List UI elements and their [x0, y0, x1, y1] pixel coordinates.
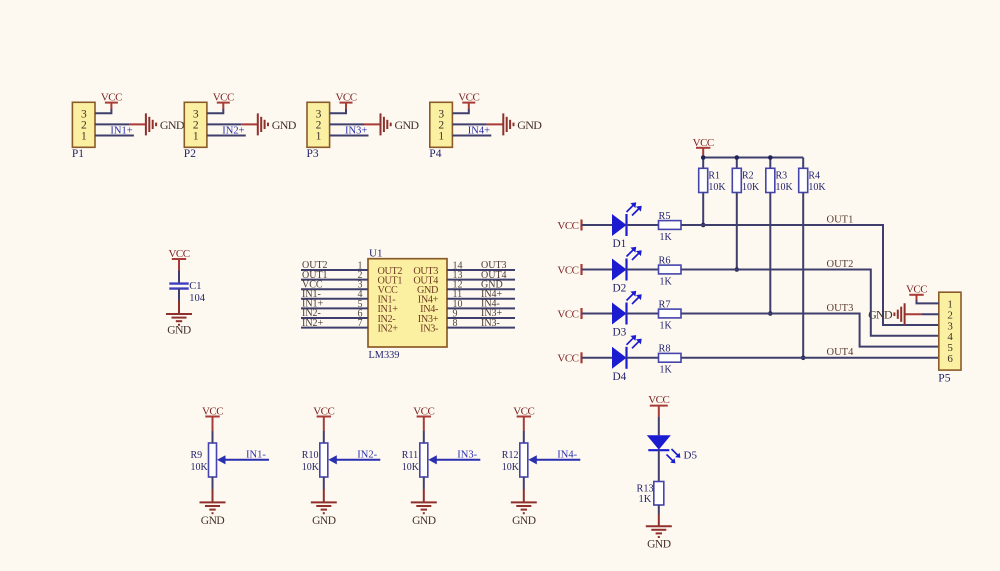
svg-text:R1: R1 [708, 170, 720, 181]
ground GND (P4 pin 2) [487, 123, 504, 125]
ground GND (R12) [523, 489, 525, 502]
resistor R8 [659, 353, 682, 362]
wire U1 pin 7 [301, 327, 368, 329]
svg-text:GND: GND [160, 118, 185, 132]
ground GND (P5 pin 2) [905, 313, 922, 315]
ground GND (P1 pin 2) [129, 123, 146, 125]
svg-text:VCC: VCC [557, 264, 578, 276]
potentiometer R9 [209, 443, 217, 477]
svg-text:1K: 1K [660, 276, 673, 287]
ground GND (C1) [178, 301, 180, 314]
wire U1 pin 6 [301, 317, 368, 319]
svg-text:10K: 10K [776, 182, 794, 193]
svg-text:GND: GND [272, 118, 297, 132]
wire OUT1 to P5 pin 3 [681, 225, 939, 325]
svg-text:LM339: LM339 [369, 350, 400, 361]
svg-text:GND: GND [647, 539, 671, 551]
svg-text:IN3-: IN3- [481, 318, 500, 329]
svg-text:C1: C1 [189, 281, 201, 292]
svg-text:104: 104 [189, 293, 206, 304]
wire D3 to R7 [627, 313, 659, 315]
wire R11 to GND [423, 477, 425, 489]
svg-text:IN2+: IN2+ [302, 318, 324, 329]
wire P1 pin 2 to ground [95, 123, 129, 125]
connector P3 [307, 102, 330, 147]
svg-text:GND: GND [167, 325, 191, 337]
svg-text:OUT3: OUT3 [827, 303, 854, 314]
resistor R13 [654, 482, 664, 506]
svg-text:GND: GND [201, 515, 225, 527]
svg-text:D2: D2 [613, 283, 627, 295]
wire U1 pin 13 [447, 279, 515, 281]
ground GND (R10) [323, 489, 325, 502]
svg-text:D1: D1 [613, 238, 627, 250]
svg-text:10K: 10K [808, 182, 826, 193]
svg-text:10K: 10K [402, 462, 420, 473]
svg-text:1K: 1K [660, 320, 673, 331]
svg-text:VCC: VCC [557, 308, 578, 320]
LED D2 [612, 259, 627, 281]
svg-text:R13: R13 [637, 483, 654, 494]
svg-text:P1: P1 [72, 148, 84, 160]
wire U1 pin 11 [447, 298, 515, 300]
potentiometer R12 [520, 443, 528, 477]
svg-text:R11: R11 [402, 450, 418, 461]
LED arrows D1 [627, 204, 636, 213]
svg-text:IN2+: IN2+ [222, 125, 244, 136]
capacitor C1 [169, 282, 188, 284]
wire U1 pin 9 [447, 317, 515, 319]
svg-text:IN1+: IN1+ [110, 125, 132, 136]
connector P4 [430, 102, 453, 147]
potentiometer R10 [320, 443, 328, 477]
wire P2 pin 3 to VCC [207, 109, 223, 113]
svg-text:1: 1 [193, 131, 199, 143]
wire VCC to R9 [212, 431, 214, 443]
connector P1 [72, 102, 95, 147]
resistor R1 [702, 158, 704, 169]
wire U1 pin 12 [447, 288, 515, 290]
wire P3 pin 3 to VCC [330, 109, 346, 113]
wire U1 pin 4 [301, 298, 368, 300]
svg-text:U1: U1 [369, 247, 382, 259]
wire U1 pin 2 [301, 279, 368, 281]
wire R10 to GND [323, 477, 325, 489]
wire R9 to GND [212, 477, 214, 489]
svg-text:R9: R9 [191, 450, 203, 461]
wire VCC to R12 [523, 431, 525, 443]
wire D2 to R6 [627, 269, 659, 271]
svg-text:GND: GND [395, 118, 420, 132]
junction [735, 267, 740, 272]
LED arrows D4 [627, 336, 636, 345]
resistor R7 [659, 309, 682, 318]
connector P2 [184, 102, 207, 147]
wire D5 to R13 [658, 450, 660, 481]
svg-text:1: 1 [316, 131, 322, 143]
resistor R5 [659, 221, 682, 230]
wire VCC to R11 [423, 431, 425, 443]
svg-text:1K: 1K [639, 494, 652, 505]
wire VCC rail [703, 157, 803, 159]
wire OUT2 to P5 pin 4 [681, 270, 939, 336]
junction [701, 223, 706, 228]
LED D4 [612, 347, 627, 369]
svg-text:R6: R6 [659, 255, 671, 266]
LED arrows D5 [672, 449, 680, 457]
wire D1 to R5 [627, 224, 659, 226]
svg-text:GND: GND [312, 515, 336, 527]
wire VCC to D3 [582, 313, 613, 315]
junction [768, 311, 773, 316]
resistor R6 [659, 265, 682, 274]
svg-text:OUT1: OUT1 [827, 214, 854, 225]
svg-text:10K: 10K [708, 182, 726, 193]
svg-text:VCC: VCC [557, 353, 578, 365]
svg-text:IN3-: IN3- [420, 323, 439, 334]
wire U1 pin 1 [301, 269, 368, 271]
svg-text:IN2+: IN2+ [378, 323, 399, 334]
resistor R3 [769, 158, 771, 169]
svg-text:IN4+: IN4+ [468, 125, 490, 136]
LED arrows D3 [627, 292, 636, 301]
junction [801, 356, 806, 361]
ground GND (R9) [212, 489, 214, 502]
svg-text:P4: P4 [429, 148, 441, 160]
svg-text:7: 7 [358, 318, 363, 329]
wire P2 pin 2 to ground [207, 123, 241, 125]
svg-text:GND: GND [512, 515, 536, 527]
svg-text:D3: D3 [613, 327, 627, 339]
svg-text:10K: 10K [502, 462, 520, 473]
svg-text:10K: 10K [742, 182, 760, 193]
wire C1 to GND [178, 289, 180, 301]
wire P4 pin 3 to VCC [452, 109, 468, 113]
svg-text:10K: 10K [302, 462, 320, 473]
wire R12 to GND [523, 477, 525, 489]
svg-text:1: 1 [81, 131, 87, 143]
svg-text:IN4-: IN4- [557, 449, 577, 460]
svg-text:R5: R5 [659, 211, 671, 222]
svg-text:1K: 1K [660, 365, 673, 376]
svg-text:GND: GND [868, 308, 893, 322]
svg-text:P3: P3 [307, 148, 319, 160]
ground GND (P3 pin 2) [364, 123, 381, 125]
wire P2 pin 1 (IN2+) [207, 135, 246, 137]
svg-text:R3: R3 [776, 170, 788, 181]
wire U1 pin 3 [301, 288, 368, 290]
svg-text:D5: D5 [684, 449, 698, 461]
svg-text:VCC: VCC [648, 394, 669, 406]
svg-text:R10: R10 [302, 450, 319, 461]
svg-text:R7: R7 [659, 299, 671, 310]
svg-text:R4: R4 [808, 170, 820, 181]
wire OUT4 to P5 pin 6 [681, 357, 939, 359]
svg-text:IN2-: IN2- [357, 449, 377, 460]
resistor R4 [802, 158, 804, 169]
svg-text:1K: 1K [660, 232, 673, 243]
svg-text:R12: R12 [502, 450, 519, 461]
wire VCC to D5 [658, 417, 660, 435]
wire P4 pin 1 (IN4+) [452, 135, 491, 137]
svg-text:OUT4: OUT4 [827, 347, 855, 358]
LED arrows D2 [627, 248, 636, 257]
svg-text:OUT2: OUT2 [827, 259, 854, 270]
svg-text:8: 8 [453, 318, 458, 329]
wire U1 pin 8 [447, 327, 515, 329]
wire VCC to C1 [178, 271, 180, 284]
ground GND (P2 pin 2) [241, 123, 257, 125]
op-amp comparator U1 body [368, 259, 447, 347]
LED D3 [612, 303, 627, 325]
svg-text:1: 1 [438, 131, 444, 143]
svg-text:10K: 10K [191, 462, 209, 473]
wire P1 pin 3 to VCC [95, 109, 111, 113]
wire R13 to GND [658, 505, 660, 514]
wire P5 pin 2 to ground [922, 313, 939, 315]
wire VCC to R10 [323, 431, 325, 443]
ground GND (R11) [423, 489, 425, 502]
svg-text:R8: R8 [659, 344, 671, 355]
wire D4 to R8 [627, 357, 659, 359]
svg-text:IN3-: IN3- [457, 449, 477, 460]
svg-text:GND: GND [517, 118, 542, 132]
wire OUT3 to P5 pin 5 [681, 314, 939, 347]
wire U1 pin 10 [447, 307, 515, 309]
svg-text:VCC: VCC [557, 220, 578, 232]
junction [768, 155, 773, 160]
svg-text:P2: P2 [184, 148, 196, 160]
wire VCC to D1 [582, 224, 613, 226]
junction [701, 155, 706, 160]
wire P1 pin 1 (IN1+) [95, 135, 134, 137]
wire P5 pin 1 to VCC [917, 300, 939, 303]
wire P4 pin 2 to ground [452, 123, 486, 125]
svg-text:IN1-: IN1- [246, 449, 266, 460]
svg-text:D4: D4 [613, 371, 627, 383]
wire U1 pin 14 [447, 269, 515, 271]
wire P3 pin 2 to ground [330, 123, 364, 125]
resistor R2 [736, 158, 738, 169]
connector P5 [939, 292, 961, 370]
potentiometer R11 [420, 443, 428, 477]
svg-text:6: 6 [947, 353, 953, 365]
junction [735, 155, 740, 160]
wire VCC to D2 [582, 269, 613, 271]
svg-text:P5: P5 [938, 373, 950, 385]
svg-text:IN3+: IN3+ [345, 125, 367, 136]
LED D1 [612, 214, 627, 236]
svg-text:GND: GND [412, 515, 436, 527]
wire P3 pin 1 (IN3+) [330, 135, 369, 137]
LED D5 [647, 435, 671, 449]
svg-text:VCC: VCC [906, 283, 927, 295]
wire VCC to D4 [582, 357, 613, 359]
wire U1 pin 5 [301, 307, 368, 309]
svg-text:R2: R2 [742, 170, 754, 181]
ground GND (D5) [658, 514, 660, 526]
